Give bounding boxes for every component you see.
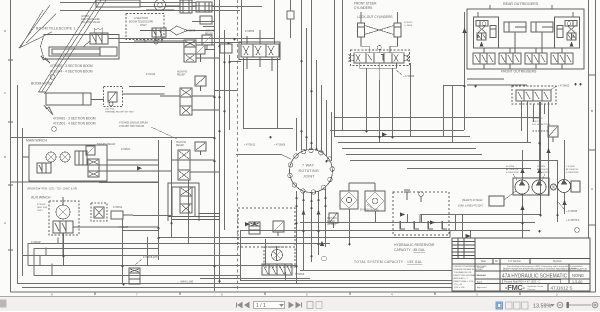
hose reel [155, 0, 166, 11]
svg-text:& 1800 RPM: & 1800 RPM [566, 172, 579, 174]
title header band [452, 238, 590, 291]
wire boom tip link [140, 30, 214, 32]
layout icon 4 [522, 302, 529, 309]
wire steer valve drop x379 [379, 80, 381, 142]
wire joint outlet down x311 [311, 193, 313, 262]
wire steer valve drop x366 [366, 68, 368, 130]
scrollbar corner blob [0, 300, 7, 308]
svg-text:47J1344 - 4 SECTION BOOM: 47J1344 - 4 SECTION BOOM [50, 70, 93, 74]
nav prev page button [245, 303, 249, 308]
valve steer block [354, 53, 404, 63]
leader hoist text [44, 105, 53, 115]
wire joint outlet down x303 [303, 192, 305, 270]
svg-text:ONLY: ONLY [140, 23, 147, 27]
wire outrigger drop x521 [521, 101, 523, 131]
svg-text:HIGH PSI: HIGH PSI [177, 72, 187, 74]
breather 1 [404, 190, 410, 200]
wire outrigger box top bus [443, 85, 465, 87]
wire steer cylinder drops [361, 37, 398, 53]
valve outrigger right small [567, 33, 576, 40]
svg-text:& 1800 RPM: & 1800 RPM [506, 172, 519, 174]
nested routing rect outer [168, 183, 199, 221]
brake cluster swing [262, 264, 292, 275]
wire return bus y214 [420, 214, 540, 216]
breather 2 [419, 192, 424, 197]
spool valve V2 [184, 40, 196, 62]
svg-text:FILL-UP SETTING: FILL-UP SETTING [532, 124, 550, 126]
wire vertical bundle x219 [219, 0, 221, 283]
wire holding valve drop [83, 41, 90, 47]
zoom slider track [566, 304, 591, 306]
relief square R1 [202, 35, 212, 45]
svg-text:ONLY: ONLY [37, 210, 43, 212]
cylinder boom telescope 1 inner [52, 49, 100, 54]
flow arrow a13 [320, 241, 324, 246]
nested routing rect inner [172, 187, 195, 217]
boom tip arrow 47J0575 [170, 26, 188, 35]
wire main winch feed horizontal [11, 181, 158, 183]
outrigger left group box [474, 17, 499, 48]
zoom out button [557, 302, 563, 308]
svg-text:TOTAL SYSTEM CAPACITY : 13: TOTAL SYSTEM CAPACITY : 135 GAL [354, 260, 422, 264]
flow arrow a5 [466, 234, 471, 238]
wire aux area connectors [99, 183, 171, 231]
svg-text:+ 47J0617: + 47J0617 [117, 226, 129, 229]
wire filter drop x375 [375, 211, 377, 222]
wire top-left leader diagonal [20, 10, 43, 48]
sheet right outer border [595, 0, 597, 292]
svg-text:55 GPM: 55 GPM [537, 166, 545, 168]
svg-text:5000 PSI RELIEF: 5000 PSI RELIEF [97, 144, 116, 146]
valve outrigger bank 1 [473, 53, 495, 64]
flow arrow a11 [430, 220, 435, 224]
wire vertical bundle x229 [229, 55, 231, 130]
svg-text:AUX WINCH: AUX WINCH [31, 196, 51, 200]
label column separators [475, 271, 500, 284]
circled number 4 [575, 228, 580, 233]
wire steer valve drop x392 [392, 68, 394, 136]
svg-text:Appd: Appd [477, 281, 483, 284]
svg-text:(+ 4059): (+ 4059) [404, 25, 412, 27]
wire return bus y275 [34, 275, 240, 277]
tank strainer 4 [442, 221, 447, 229]
wire top vertical x334 [334, 0, 336, 136]
wire centre bus y130 [330, 130, 464, 132]
svg-text:47J0555: 47J0555 [245, 30, 255, 33]
svg-text:HOLDING VALVE: HOLDING VALVE [81, 21, 100, 24]
wire outrigger cylinder drops [478, 32, 573, 53]
wire filter drop x349 [349, 209, 351, 243]
motor swing [272, 250, 283, 261]
spool valve V3 [180, 88, 192, 115]
layout icon active [496, 302, 503, 309]
svg-text:A: A [591, 187, 593, 191]
svg-text:B: B [4, 155, 6, 159]
svg-text:13.59%: 13.59% [533, 304, 551, 310]
flow arrow a12 [400, 212, 405, 216]
pump 1 [515, 180, 529, 194]
prime mover box [489, 196, 504, 206]
valve in dashed box [152, 28, 166, 37]
svg-text:.XX = .06: .XX = .06 [454, 284, 463, 286]
svg-text:JOINT: JOINT [303, 175, 315, 179]
boom B outline diagonals [39, 0, 107, 94]
wire joint feeder x306 [306, 28, 308, 150]
flow arrow a10 [137, 166, 142, 170]
relief boosted [548, 126, 558, 137]
valve aux winch [53, 221, 73, 233]
svg-text:C: C [4, 91, 7, 95]
flow arrow a2 [537, 168, 541, 173]
valve telescope holding [90, 33, 108, 44]
outrigger right X flow [567, 26, 576, 34]
svg-text:ROTATING: ROTATING [299, 169, 319, 173]
wire aux vertical x171 [171, 140, 173, 237]
svg-text:Checked: Checked [477, 275, 486, 277]
wire relief pilot dashed [531, 130, 548, 132]
svg-text:+ 47J0602: + 47J0602 [558, 85, 570, 88]
wire top long horizontals [60, 3, 262, 11]
svg-text:RELIEF: RELIEF [176, 145, 185, 147]
wire outrigger drop x527 [527, 101, 529, 142]
svg-text:THERMAL RELIEF SETTING: THERMAL RELIEF SETTING [105, 111, 134, 114]
cylinder outrigger mid 2 [531, 22, 553, 32]
thermal relief dashed box [104, 87, 123, 107]
svg-text:AT 2400 PSI: AT 2400 PSI [506, 168, 519, 171]
svg-text:47J1501 - 4 SECTION BOOM: 47J1501 - 4 SECTION BOOM [53, 122, 96, 126]
tank strainer 3 [428, 221, 433, 229]
svg-text:47J0506: 47J0506 [37, 204, 46, 206]
svg-text:A: A [4, 221, 6, 225]
upper boom slanted outline [19, 5, 56, 48]
svg-text:(10 MIC): (10 MIC) [327, 224, 336, 226]
wire swing horizontal y154 [236, 155, 291, 160]
wire joint feeder x326 [326, 100, 328, 156]
wire valve drop right [277, 58, 279, 128]
leader 47J0602 [550, 86, 557, 90]
tank strainer 2 [414, 221, 419, 229]
wire centre bus y154 [346, 154, 482, 156]
wire steer below-valve returns [360, 63, 397, 80]
svg-text:REAR OUTRIGGERS: REAR OUTRIGGERS [503, 2, 539, 6]
outrigger left X flow [478, 26, 487, 34]
boom telescope 1 outline [41, 35, 120, 60]
check circle a-section [154, 40, 158, 44]
title row separators [500, 264, 590, 291]
wire joint feeder x331 [331, 112, 333, 161]
check outrigger left [482, 22, 486, 26]
wire joint feeder x316 [316, 60, 318, 151]
svg-text:ANGULAR = .T: ANGULAR = .T [454, 277, 469, 280]
cylinder steer left [358, 23, 365, 37]
svg-text:.XXX = .030: .XXX = .030 [454, 287, 466, 289]
relief square R3 [195, 142, 206, 151]
svg-text:FRONT STEER: FRONT STEER [354, 2, 377, 6]
svg-text:BOOM TELESCOPE 1: BOOM TELESCOPE 1 [36, 27, 76, 31]
rotating joint ports [288, 148, 335, 194]
svg-text:TOLERANCES ON: TOLERANCES ON [454, 271, 472, 274]
svg-text:47A HYDRAULIC SCHEMATIC: 47A HYDRAULIC SCHEMATIC [502, 274, 567, 280]
port circle steer [377, 46, 381, 50]
cylinder steer right [394, 23, 401, 37]
main winch box [29, 145, 107, 181]
spool valve V4 [178, 150, 190, 180]
wire filters top [349, 183, 375, 191]
cylinder telescope piston [99, 47, 101, 56]
manifold 47J0602 block [516, 90, 551, 101]
sheet left border [10, 0, 12, 292]
dashed box steer valve [351, 50, 410, 66]
wire steer cross linkage X [365, 26, 395, 35]
svg-text:← MAIN LINE: ← MAIN LINE [177, 280, 194, 284]
valve steer end springs [349, 55, 409, 61]
svg-text:47J1612 S: 47J1612 S [551, 286, 573, 291]
wire centre bus y142 [338, 142, 531, 144]
svg-text:C O Number: C O Number [508, 260, 521, 263]
zone tick marks left border [8, 60, 13, 250]
circled number 3 [52, 127, 57, 132]
valve outrigger bank 2 [499, 53, 521, 64]
outrigger outer box [467, 9, 584, 69]
valve aux mid [94, 207, 104, 218]
leader telescope text [41, 56, 50, 63]
sheet bottom border [11, 291, 596, 293]
wire joint outlet down x325 [325, 189, 327, 247]
joint outlet arrows [302, 210, 321, 215]
wire left vertical bus A [17, 85, 19, 283]
leader pump spec [513, 174, 545, 180]
valve 47J0555 [241, 44, 279, 57]
title block [452, 238, 590, 291]
layout icon 2 [506, 302, 513, 309]
wire return bus y270 [200, 271, 455, 279]
outrigger right group box [555, 17, 580, 48]
wire centre bus y117 [335, 117, 540, 119]
filter left element [341, 192, 357, 208]
zone tick marks bottom [95, 292, 520, 295]
circled number 8 [322, 256, 327, 261]
svg-text:+ 47J0606: + 47J0606 [274, 144, 286, 147]
pump frame [513, 178, 549, 195]
spring telescope holding [94, 28, 102, 33]
svg-text:A SECTION: A SECTION [134, 16, 148, 20]
svg-text:CYLINDERS: CYLINDERS [354, 6, 372, 10]
pump 3 [558, 180, 571, 193]
wire bottom feeder verticals [64, 180, 286, 283]
svg-text:BY-PASS (40 PSI): BY-PASS (40 PSI) [360, 209, 379, 212]
wire vertical bundle x214 [214, 0, 216, 291]
wire centre bus y136 [334, 136, 470, 138]
aux mid dashed box [91, 203, 107, 221]
svg-text:RETURN: RETURN [327, 218, 337, 220]
svg-text:HIGH PSI: HIGH PSI [205, 31, 215, 33]
inline valve 47J0608 [129, 268, 140, 284]
wire return bus y222 [300, 222, 535, 224]
wire top vertical x342 [342, 0, 344, 130]
wire joint outlet down x296 [296, 191, 298, 283]
tank strainer 1 [400, 221, 405, 229]
nav history icons [307, 302, 313, 309]
leader 47J0565 [558, 202, 565, 210]
svg-text:+ 47J0565: + 47J0565 [566, 210, 578, 213]
engine coupling [571, 181, 580, 192]
svg-text:+ 47J0612: + 47J0612 [244, 144, 256, 147]
cylinder upper boom (cut at top) [96, 0, 140, 7]
leader 47J0599 [396, 70, 402, 75]
wire pump drain verticals [523, 102, 565, 240]
svg-text:1 / 1: 1 / 1 [256, 303, 266, 309]
valve small below cluster [200, 16, 212, 24]
svg-text:AT 1500 PSI: AT 1500 PSI [566, 168, 579, 171]
cylinder outrigger right vertical [557, 26, 563, 38]
layout icon 3 [514, 302, 521, 309]
manifold 47J0602 dashed [512, 86, 556, 104]
svg-text:Date: Date [481, 260, 487, 263]
leader boom text arrow2 [151, 127, 177, 139]
svg-text:BOOSTED: BOOSTED [532, 118, 543, 120]
svg-text:Drafted: Drafted [477, 266, 485, 269]
motor main winch left [46, 152, 56, 162]
wire aux winch links [63, 197, 158, 255]
svg-text:40 GPM: 40 GPM [506, 166, 514, 168]
flow arrow a9 [562, 200, 566, 205]
wire boom area connectors [11, 22, 274, 138]
sheet right border [588, 0, 590, 292]
svg-text:47J0644*: 47J0644* [31, 241, 41, 244]
printed matl box [503, 280, 561, 283]
spool valve main winch [88, 159, 99, 177]
svg-text:47J1156 TWO DRUM: 47J1156 TWO DRUM [119, 124, 144, 128]
svg-text:47J0512: 47J0512 [113, 206, 123, 209]
wire centre bus y160 [350, 160, 557, 162]
svg-text:+ 47J0575: + 47J0575 [184, 30, 196, 33]
wire left vertical bus B [22, 128, 24, 276]
circled number 2 [50, 75, 55, 80]
thermal relief valve [108, 92, 117, 102]
rotating joint body [290, 150, 333, 193]
flow arrow a4 [462, 28, 466, 33]
valve 47J0555 subplate [239, 42, 280, 60]
cylinder outrigger left vertical [490, 26, 496, 38]
svg-text:(EFF. S/N): (EFF. S/N) [37, 207, 47, 209]
nav next page button [289, 303, 293, 308]
wire return bus y265 [28, 265, 296, 267]
wire steer top feeds [361, 12, 398, 23]
relief valve upper [196, 45, 205, 54]
relief in swing box [273, 221, 284, 232]
svg-text:FRACTIONAL = 1/16: FRACTIONAL = 1/16 [454, 280, 474, 283]
cylinder boom hoist piston [82, 93, 84, 105]
wire spool connectors [134, 6, 219, 172]
wire reel support [146, 0, 174, 10]
svg-text:47J0606: 47J0606 [295, 273, 305, 276]
valve cluster top [196, 2, 212, 12]
svg-text:BOOM TELESCOPE: BOOM TELESCOPE [129, 20, 153, 24]
svg-text:Revision: Revision [553, 261, 563, 263]
svg-text:NONE: NONE [572, 273, 584, 278]
filter right element [366, 192, 384, 210]
svg-text:Hydraulic Crane: Hydraulic Crane [528, 285, 544, 288]
svg-text:MAIN WINCH: MAIN WINCH [26, 139, 47, 143]
svg-text:Scale: Scale [571, 268, 577, 270]
svg-text:47J0491 - 3 SECTION BOOM: 47J0491 - 3 SECTION BOOM [53, 117, 96, 121]
valve main winch [37, 163, 51, 173]
valve outrigger right top [565, 21, 577, 27]
wire valve drop left [243, 58, 245, 128]
svg-text:Approved: Approved [477, 286, 487, 289]
wire return bus y255 [22, 255, 240, 257]
zoom dropdown caret [550, 304, 555, 307]
svg-text:2500 PSI: 2500 PSI [532, 121, 541, 123]
wire joint feeder x321 [321, 85, 323, 153]
svg-text:-FMC-: -FMC- [505, 283, 526, 292]
wire joint feeder x296 [296, 118, 298, 151]
spool valve V5 [180, 187, 192, 213]
wire return bus y230 [240, 230, 530, 232]
filter left box [340, 191, 358, 209]
wire reservoir drops [401, 214, 443, 229]
wire centre bus y168 [407, 168, 531, 170]
svg-text:47J0483 SINGLE DRUM: 47J0483 SINGLE DRUM [119, 121, 148, 125]
wire mid vertical x241 [241, 0, 243, 44]
valve outrigger left small [477, 33, 486, 40]
check outrigger right [567, 22, 571, 26]
svg-text:BOOM-HOIST: BOOM-HOIST [31, 82, 53, 86]
svg-text:FRONT OUTRIGGERS: FRONT OUTRIGGERS [501, 70, 537, 74]
spool valve V1 [180, 0, 192, 13]
flow arrow a3 [546, 148, 550, 153]
svg-text:[OAK LANE] 47J1147: [OAK LANE] 47J1147 [458, 204, 483, 208]
zone tick marks right border [588, 75, 596, 225]
brake cylinder main winch [75, 151, 87, 165]
outrigger right down arrow [570, 42, 574, 47]
fold line (vertical dashed centre-left) [237, 0, 239, 291]
wire outrigger drop extra 2 [452, 85, 454, 142]
dashed box swing motor [264, 247, 295, 267]
wire vertical bundle x224 [224, 30, 226, 230]
wire routing horizontals [168, 214, 220, 220]
svg-text:AT 1200 PSI: AT 1200 PSI [537, 168, 550, 171]
valve outrigger left top [476, 21, 488, 27]
svg-text:4730600 - 3 SECTION BOOM: 4730600 - 3 SECTION BOOM [50, 64, 93, 68]
svg-text:HIGH PSI: HIGH PSI [176, 142, 186, 144]
joint outlet dots [295, 197, 326, 209]
nav page field dropdown [279, 304, 284, 307]
flow arrow a6 [382, 132, 387, 136]
wire left nested corners [40, 238, 58, 276]
thermal relief check circle [109, 102, 113, 106]
aux winch dashed box [49, 201, 79, 235]
wire centre bus y148 [342, 148, 476, 150]
wire outrigger bank bus [467, 48, 573, 85]
svg-text:RELIEF: RELIEF [177, 75, 186, 77]
dashed box centre swing control [238, 208, 295, 247]
relief small right of joint [329, 213, 338, 223]
junction block right of spools [220, 44, 232, 53]
wire main winch links [23, 157, 171, 171]
svg-text:1-5-80: 1-5-80 [572, 280, 582, 284]
flow arrow a7 [245, 222, 250, 226]
svg-text:FILTER: FILTER [327, 221, 335, 223]
component aux right [111, 211, 123, 219]
svg-text:7.5 GPM: 7.5 GPM [566, 166, 575, 168]
motor main winch right [60, 152, 70, 162]
svg-text:HYDRAULIC RESERVOIR: HYDRAULIC RESERVOIR [394, 243, 435, 247]
svg-text:+ 47J0599: + 47J0599 [403, 75, 415, 78]
wire left corner steps [28, 244, 188, 276]
svg-text:D: D [4, 29, 7, 33]
wire return bus y280 [240, 280, 540, 282]
